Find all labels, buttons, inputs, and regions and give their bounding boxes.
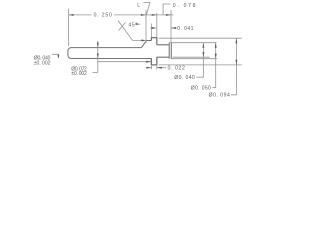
arrow O0.050 dim up [215,43,217,48]
svg-text:Ø0. 094: Ø0. 094 [209,93,231,99]
arrow at chamfer ext row2 [136,23,141,25]
dimension row 0.041 [150,27,177,29]
dim line O0.094 right vertical with hook [231,38,236,95]
chamfer 45 top edge [142,41,147,48]
extension line part right end top [170,10,172,43]
arrow O0.072 leader [146,61,151,63]
right shaft O0.040 edges [157,45,169,57]
svg-text:±0. 002: ±0. 002 [34,61,51,67]
extension line collar right top [156,13,158,37]
svg-text:±0. 002: ±0. 002 [71,71,87,77]
arrow 45 leader [141,39,146,41]
extension line collar left top [150,24,152,37]
dim line O0.050 right vertical with hook [212,43,215,88]
leader 45 degrees [118,21,142,41]
arrow O0.040 dim up [202,43,204,48]
arrow 0.022 left [146,67,151,69]
arrow 0.041 left [152,27,157,29]
arrow O0.040 dim down [202,52,204,57]
shoulder section O0.072 edges [147,40,152,42]
arrow 0.250 right [141,14,146,16]
arrow O0.040 left leader [57,55,59,59]
svg-text:0. 078: 0. 078 [173,3,196,9]
right ext line O0.094 bottom [159,64,242,66]
arrow 0.250 left [69,14,74,16]
arrow O0.040 tail top (down) [97,43,99,48]
svg-text:0. 250: 0. 250 [94,12,113,18]
leader O0.072 [93,41,152,72]
svg-text:L: L [137,2,140,8]
extension line chamfer end [145,10,147,43]
arrow L right [152,14,157,16]
right tip bump O0.050 outline [169,43,171,59]
right ext line O0.040 bottom [173,56,210,58]
collar O0.094 outline [151,38,156,65]
arrow O0.094 dim up [235,38,237,43]
extension lines 0.022 below collar [151,66,156,70]
arrow O0.050 dim down [215,54,217,59]
extension line left 0.250 [68,9,70,47]
arrow 0.041 right [171,27,176,29]
dimension line 0.250 [69,14,147,16]
leader O0.040 left [52,54,59,58]
svg-text:Ø0. 050: Ø0. 050 [191,86,212,92]
arrow O0.040 tail bottom (down) [97,53,99,58]
dimension line 0.022 left arrow tail [147,67,152,69]
arrow 0.078 right [166,14,171,16]
right ext line O0.094 top [159,37,242,39]
svg-text:Ø0. 040: Ø0. 040 [174,75,195,81]
leader 0.078 [163,4,170,15]
dimension line 0.078 span with overrun [157,14,174,16]
svg-text:0. 022: 0. 022 [168,66,186,72]
svg-text:45°: 45° [128,22,137,28]
pin tail outline (left, rounded tip) [68,48,152,59]
arrow O0.094 dim down [235,60,237,65]
right ext line O0.050 bottom [171,58,217,60]
right ext line O0.040 and O0.050 top shared [169,42,216,44]
dimension line 0.022 right leader [157,67,167,69]
dimension line L span [146,14,157,16]
leader L [144,2,151,14]
svg-text:0. 041: 0. 041 [177,26,194,32]
dim line O0.040 right vertical with hook [197,43,204,77]
arrow 0.022 right [157,67,162,69]
